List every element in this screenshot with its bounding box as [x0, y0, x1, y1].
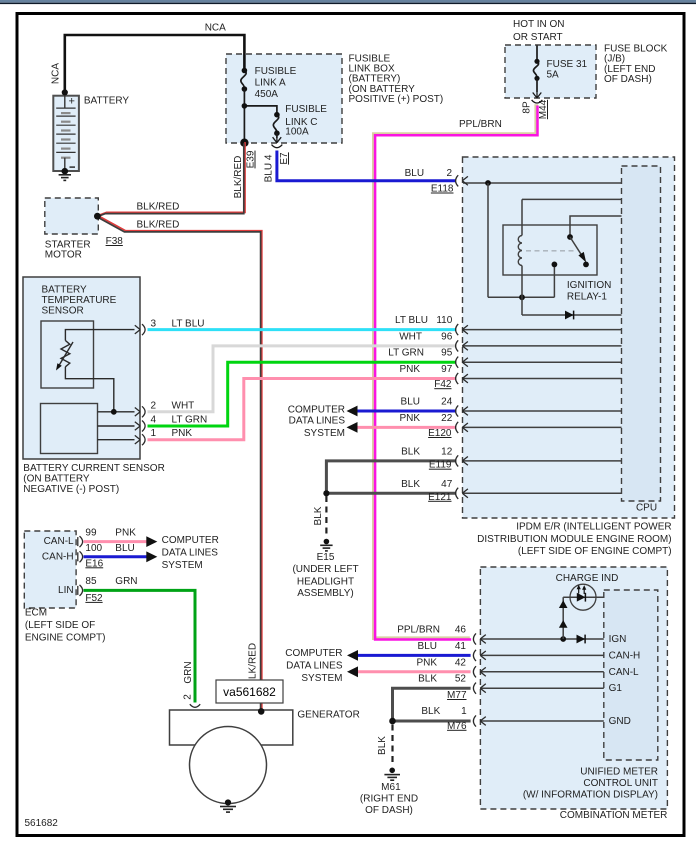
svg-text:5A: 5A [547, 70, 560, 81]
label UNIFIED METER caption [523, 767, 658, 801]
svg-text:E39: E39 [246, 150, 257, 168]
fusible link A [241, 68, 247, 92]
IPDM internal vertical from E118 junction [487, 183, 489, 297]
svg-text:va561682: va561682 [223, 685, 276, 699]
wire BLK meter GND to M61 [389, 718, 470, 725]
wire BLK/RED E39 to starter motor [97, 142, 245, 217]
label BLK 1 [421, 706, 467, 717]
label FUSE BLOCK caption [604, 44, 668, 86]
meter connector CAN-L [473, 666, 485, 677]
svg-text:BATTERY: BATTERY [84, 96, 130, 107]
label E39 [246, 150, 257, 168]
label PPL/BRN 46 [397, 625, 466, 636]
svg-text:BLU: BLU [115, 543, 134, 554]
meter GND row [481, 720, 604, 722]
ECM pin LIN connector [78, 585, 83, 596]
IPDM pin row 22 [463, 426, 622, 428]
svg-text:ASSEMBLY): ASSEMBLY) [297, 588, 354, 599]
svg-text:GRN: GRN [115, 576, 137, 587]
current sensor inner rect [41, 404, 98, 454]
label BLK 12 [401, 446, 453, 457]
label FUSIBLE LINK C 100A [285, 104, 327, 138]
svg-text:ENGINE COMPT): ENGINE COMPT) [25, 633, 106, 644]
svg-text:FUSE 31: FUSE 31 [547, 59, 588, 70]
IPDM internal horizontal to relay contact [488, 294, 554, 300]
svg-text:CHARGE IND: CHARGE IND [556, 573, 619, 584]
connector pin 24 [456, 405, 468, 416]
label PNK 22 [399, 413, 452, 424]
ECM pin CAN-L connector [78, 536, 83, 547]
svg-text:CAN-L: CAN-L [609, 667, 639, 678]
wire BLU IPDM 24 to data lines arrow [347, 406, 457, 417]
sensor pin 1 connector [135, 434, 145, 445]
meter connector IGN [473, 633, 485, 644]
label F52 [85, 593, 103, 604]
svg-text:IPDM E/R (INTELLIGENT POWER: IPDM E/R (INTELLIGENT POWER [516, 522, 671, 533]
svg-text:DATA LINES: DATA LINES [286, 660, 343, 671]
svg-text:85: 85 [85, 576, 97, 587]
svg-text:IGN: IGN [609, 634, 627, 645]
svg-text:12: 12 [441, 446, 453, 457]
label PNK 42 [416, 657, 466, 668]
svg-text:BLK: BLK [401, 446, 420, 457]
svg-text:(UNDER LEFT: (UNDER LEFT [292, 564, 358, 575]
label BATTERY [84, 96, 130, 107]
relay coil top feed to CPU [522, 198, 622, 200]
svg-text:LK/RED: LK/RED [248, 643, 259, 679]
svg-text:41: 41 [455, 641, 467, 652]
svg-text:561682: 561682 [25, 818, 59, 829]
svg-text:BLK: BLK [401, 479, 420, 490]
svg-text:2: 2 [446, 168, 452, 179]
svg-text:GRN: GRN [183, 661, 194, 683]
LED riser with arrows [559, 597, 568, 639]
label E119 [429, 460, 452, 471]
label COMBINATION METER [560, 810, 668, 821]
label F38 [106, 236, 124, 247]
svg-text:MOTOR: MOTOR [45, 250, 82, 261]
battery ground [59, 168, 71, 181]
label BLK vertical E15 [313, 506, 324, 525]
IPDM pin row 95 [463, 361, 622, 363]
label 561682 [25, 818, 59, 829]
label PNK 97 [399, 364, 452, 375]
svg-text:WHT: WHT [172, 400, 195, 411]
connector pin 95 [456, 357, 468, 368]
diode on relay line [565, 311, 574, 320]
label NCA vertical [51, 63, 62, 84]
fusible link box internal wires [242, 89, 277, 143]
relay switch arm [570, 237, 589, 267]
fuse 31 [533, 46, 539, 93]
label CAN-H meter [609, 650, 641, 661]
meter connector GND M76 [473, 715, 485, 726]
connector pin 96 [456, 340, 468, 351]
svg-text:99: 99 [85, 527, 97, 538]
wire WHT pin2 to IPDM 96 [148, 346, 457, 412]
svg-text:BLK: BLK [313, 506, 324, 525]
label IGNITION RELAY-1 [567, 280, 611, 302]
label COMPUTER DATA LINES SYSTEM ECM [162, 535, 219, 571]
label IPDM caption [477, 522, 671, 558]
svg-text:1: 1 [461, 706, 467, 717]
label FUSIBLE LINK BOX caption [349, 53, 444, 105]
svg-text:SYSTEM: SYSTEM [301, 673, 342, 684]
svg-text:E118: E118 [431, 184, 454, 195]
svg-text:(LEFT SIDE OF ENGINE COMPT): (LEFT SIDE OF ENGINE COMPT) [518, 546, 672, 557]
wire BLU CAN-H to data lines arrow [84, 551, 158, 562]
label BATTERY TEMPERATURE SENSOR [42, 285, 117, 317]
label CAN-L [44, 536, 74, 547]
starter motor junction dot [94, 213, 101, 220]
svg-text:DATA LINES: DATA LINES [289, 415, 346, 426]
svg-text:NCA: NCA [205, 23, 226, 34]
va561682 watermark box [216, 680, 283, 703]
svg-text:G1: G1 [609, 683, 623, 694]
svg-text:F52: F52 [85, 593, 103, 604]
svg-text:PPL/BRN: PPL/BRN [459, 119, 502, 130]
svg-text:2: 2 [183, 694, 194, 700]
svg-text:FUSIBLE: FUSIBLE [285, 104, 327, 115]
label M44 [538, 99, 549, 119]
svg-text:BLK/RED: BLK/RED [233, 156, 244, 199]
label HOT IN ON OR START [513, 19, 564, 43]
wire PNK IPDM 22 to data lines arrow [347, 422, 457, 433]
label COMPUTER DATA LINES SYSTEM bottom [285, 648, 343, 684]
svg-text:OF DASH): OF DASH) [604, 74, 652, 85]
svg-text:UNIFIED METER: UNIFIED METER [580, 767, 658, 778]
label F42 [434, 379, 452, 390]
fusible link box (battery) [226, 54, 342, 143]
svg-text:ECM: ECM [25, 608, 47, 619]
svg-text:COMPUTER: COMPUTER [285, 648, 342, 659]
sensor pin 2 connector [135, 406, 145, 417]
svg-text:SENSOR: SENSOR [42, 306, 84, 317]
label BLU 24 [401, 397, 453, 408]
svg-text:E15: E15 [317, 552, 335, 563]
svg-text:BLK/RED: BLK/RED [137, 220, 180, 231]
connector E7 down arrow [272, 137, 283, 148]
label pin 2 WHT [151, 400, 195, 411]
svg-text:BLK: BLK [418, 674, 437, 685]
svg-text:F38: F38 [106, 236, 124, 247]
IPDM internal line E118 to CPU [463, 180, 622, 186]
svg-text:FUSIBLE: FUSIBLE [255, 66, 297, 77]
label GRN vertical [183, 661, 194, 683]
wire PNK CAN-L to data lines arrow [84, 536, 158, 547]
meter CAN-L row [481, 671, 604, 673]
IPDM pin row 96 [463, 345, 622, 347]
label CPU [636, 503, 657, 514]
label pin 3 LT BLU [151, 319, 205, 330]
svg-text:LT GRN: LT GRN [172, 415, 208, 426]
generator rect [170, 710, 293, 745]
svg-text:PNK: PNK [115, 527, 136, 538]
thermistor [56, 341, 73, 371]
wire BLK IPDM 12 to E15 [326, 461, 456, 493]
svg-text:NEGATIVE (-) POST): NEGATIVE (-) POST) [23, 484, 119, 495]
unified meter control unit box [604, 590, 658, 760]
svg-text:110: 110 [436, 315, 452, 326]
svg-text:CAN-L: CAN-L [44, 536, 74, 547]
relay coil to CPU with diode [522, 314, 622, 316]
svg-text:LT GRN: LT GRN [388, 348, 424, 359]
label PPL/BRN top [459, 119, 502, 130]
svg-text:BLU 4: BLU 4 [264, 154, 275, 182]
relay coil [518, 236, 522, 266]
svg-text:CAN-H: CAN-H [609, 650, 641, 661]
svg-text:E7: E7 [279, 152, 290, 165]
svg-text:M44: M44 [538, 99, 549, 119]
svg-text:SYSTEM: SYSTEM [304, 428, 345, 439]
svg-text:1: 1 [151, 428, 157, 439]
battery box [53, 96, 79, 171]
svg-text:4: 4 [151, 415, 157, 426]
label pin 1 PNK [151, 428, 193, 439]
label pin 4 LT GRN [151, 415, 208, 426]
label 8P [522, 101, 533, 114]
label FUSE 31 5A [547, 59, 588, 81]
dashed BLK drop to M61 ground [391, 725, 393, 763]
svg-text:97: 97 [441, 364, 453, 375]
label BLK/RED vertical [233, 156, 244, 199]
dashed BLK drop to E15 ground [325, 496, 327, 536]
svg-text:8P: 8P [522, 101, 533, 114]
svg-text:PNK: PNK [416, 657, 437, 668]
charge indicator LED [563, 584, 604, 610]
svg-text:LIN: LIN [58, 585, 74, 596]
IPDM pin row 24 [463, 410, 622, 412]
svg-text:TEMPERATURE: TEMPERATURE [42, 295, 117, 306]
label CHARGE IND [556, 573, 619, 584]
wire GRN LIN to generator pin 2 [84, 590, 196, 702]
svg-text:95: 95 [441, 348, 453, 359]
svg-text:PNK: PNK [172, 428, 193, 439]
relay dashed actuator line [526, 250, 576, 252]
sensor pin 3 connector [135, 324, 145, 335]
svg-text:NCA: NCA [51, 63, 62, 84]
fuse block bottom connector M44 [532, 92, 543, 103]
wire NCA battery to fusible link box [65, 35, 245, 92]
ECM box [24, 531, 76, 608]
label E121 [428, 492, 452, 503]
svg-text:450A: 450A [255, 89, 279, 100]
svg-text:BLU: BLU [401, 397, 420, 408]
label BATTERY CURRENT SENSOR caption [23, 463, 165, 495]
label IGN [609, 634, 627, 645]
svg-text:DATA LINES: DATA LINES [162, 548, 219, 559]
battery internals [56, 96, 75, 172]
svg-text:BATTERY CURRENT SENSOR: BATTERY CURRENT SENSOR [23, 463, 165, 474]
svg-text:(ON BATTERY: (ON BATTERY [23, 474, 90, 485]
IPDM pin row 110 [463, 329, 622, 331]
svg-text:M77: M77 [447, 690, 467, 701]
svg-text:2: 2 [151, 400, 157, 411]
svg-text:PPL/BRN: PPL/BRN [397, 625, 440, 636]
connector pin 47 E121 [456, 488, 468, 499]
connector pin 110 [456, 324, 468, 335]
battery plus sign [69, 96, 75, 108]
label G1 [609, 683, 623, 694]
svg-text:E121: E121 [428, 492, 452, 503]
svg-text:24: 24 [441, 397, 453, 408]
label BLU 4 vertical [264, 154, 275, 182]
svg-text:BLU: BLU [418, 641, 437, 652]
label 99 PNK [85, 527, 136, 538]
relay switch common feed [567, 216, 621, 240]
IPDM pin row 12 [463, 460, 622, 462]
meter connector CAN-H [473, 650, 485, 661]
wire BLK IPDM 47 to E15 [323, 490, 456, 496]
label 2 vertical [183, 694, 194, 700]
svg-text:PNK: PNK [399, 364, 420, 375]
label ECM caption [25, 608, 106, 644]
label 85 GRN [85, 576, 137, 587]
svg-text:F42: F42 [434, 379, 452, 390]
label STARTER MOTOR [45, 240, 91, 261]
svg-text:DISTRIBUTION MODULE ENGINE ROO: DISTRIBUTION MODULE ENGINE ROOM) [477, 534, 671, 545]
svg-text:+: + [69, 96, 75, 108]
meter IGN row [481, 636, 604, 642]
label E120 [428, 428, 452, 439]
label M61 caption [360, 782, 418, 816]
svg-text:(W/ INFORMATION DISPLAY): (W/ INFORMATION DISPLAY) [523, 790, 658, 801]
E15 ground [320, 539, 332, 551]
battery temperature sensor box [23, 277, 140, 459]
combination meter box [480, 567, 667, 809]
svg-text:CAN-H: CAN-H [42, 552, 74, 563]
wire LT BLU pin3 to IPDM 110 [148, 328, 457, 331]
svg-text:M76: M76 [447, 721, 467, 732]
label BLK 52 [418, 674, 466, 685]
svg-text:COMBINATION METER: COMBINATION METER [560, 810, 668, 821]
svg-text:96: 96 [441, 331, 453, 342]
sensor internal wires [65, 330, 134, 440]
svg-text:LINK A: LINK A [255, 78, 286, 89]
meter G1 row [481, 687, 604, 689]
svg-text:46: 46 [455, 625, 467, 636]
label BLK/RED lower [137, 220, 180, 231]
label BLK vertical M61 [377, 736, 388, 755]
svg-text:HOT IN ON: HOT IN ON [513, 19, 564, 30]
svg-text:COMPUTER: COMPUTER [288, 405, 345, 416]
svg-text:CONTROL UNIT: CONTROL UNIT [583, 778, 658, 789]
svg-text:52: 52 [455, 674, 467, 685]
connector pin 12 E119 [456, 455, 468, 466]
wire BLK/RED starter motor to generator [97, 216, 262, 712]
label LT GRN 95 [388, 348, 452, 359]
label E7 [279, 152, 290, 165]
svg-text:OF DASH): OF DASH) [365, 805, 413, 816]
svg-text:(RIGHT END: (RIGHT END [360, 794, 418, 805]
svg-text:BLU: BLU [405, 168, 424, 179]
generator pin 2 connector [190, 704, 200, 707]
label FUSIBLE LINK A 450A [255, 66, 297, 100]
relay coil wire [521, 199, 523, 315]
svg-text:BLK: BLK [377, 736, 388, 755]
wire LT GRN pin4 to IPDM 95 [148, 362, 457, 426]
label NCA top [205, 23, 226, 34]
svg-text:M61: M61 [381, 782, 401, 793]
svg-text:GENERATOR: GENERATOR [297, 710, 359, 721]
junction dot fusible box bottom [240, 139, 248, 147]
label BLK/RED upper [137, 202, 180, 213]
meter connector G1 M77 [473, 683, 485, 694]
connector pin 22 E120 [456, 422, 468, 433]
wire PNK meter CAN-L to data lines arrow [347, 666, 471, 677]
IPDM pin row 47 [463, 492, 622, 494]
IPDM pin row 97 [463, 378, 622, 380]
diode on IGN row [577, 635, 586, 644]
svg-text:GND: GND [609, 716, 631, 727]
svg-text:BLK: BLK [421, 706, 440, 717]
svg-text:POSITIVE (+) POST): POSITIVE (+) POST) [349, 94, 444, 105]
svg-text:IGNITION: IGNITION [567, 280, 611, 291]
starter motor box [45, 198, 99, 234]
svg-text:OR START: OR START [513, 32, 563, 43]
label E16 [85, 558, 103, 569]
svg-text:BATTERY: BATTERY [42, 285, 88, 296]
svg-text:E119: E119 [429, 460, 452, 471]
fuse block J/B [505, 45, 596, 98]
wire BLU meter CAN-H to data lines arrow [347, 650, 471, 661]
label BLK 47 [401, 479, 453, 490]
CPU box [622, 166, 661, 501]
label BLU 2 E118 [405, 168, 454, 195]
svg-text:47: 47 [441, 479, 453, 490]
relay contact riser [552, 262, 558, 298]
label CAN-H [42, 552, 74, 563]
svg-text:PNK: PNK [399, 413, 420, 424]
connector E118 [456, 175, 468, 186]
wire PPL/BRN fuse to combination meter [374, 104, 538, 639]
label M77 [447, 690, 467, 701]
label M76 [447, 721, 467, 732]
battery top junction dot [62, 89, 68, 95]
fusible link C [273, 112, 279, 138]
label 100 BLU [85, 543, 134, 554]
svg-text:BLK/RED: BLK/RED [137, 202, 180, 213]
svg-text:22: 22 [441, 413, 453, 424]
label BLU 41 [418, 641, 467, 652]
top window bar [0, 0, 696, 4]
svg-text:(LEFT SIDE OF: (LEFT SIDE OF [25, 620, 95, 631]
label LK/RED vertical [248, 643, 259, 679]
label LT BLU 110 [395, 315, 453, 326]
svg-text:COMPUTER: COMPUTER [162, 535, 219, 546]
svg-text:42: 42 [455, 657, 467, 668]
svg-text:3: 3 [151, 319, 157, 330]
svg-text:RELAY-1: RELAY-1 [567, 291, 607, 302]
wire BLU E7 to E118 [277, 151, 456, 181]
ECM pin CAN-H connector [78, 551, 83, 562]
svg-text:LT BLU: LT BLU [395, 315, 428, 326]
generator ground [220, 799, 236, 812]
relay rect [503, 225, 597, 275]
thermistor inner rect [41, 321, 94, 388]
label COMPUTER DATA LINES SYSTEM middle [288, 405, 346, 440]
wire PNK pin1 to IPDM 97 [148, 379, 457, 440]
M61 ground [384, 768, 400, 781]
label CAN-L meter [609, 667, 639, 678]
label GND [609, 716, 631, 727]
label E15 caption [292, 552, 358, 599]
svg-text:E16: E16 [85, 558, 103, 569]
IPDM E/R box [463, 157, 675, 518]
svg-text:LT BLU: LT BLU [172, 319, 205, 330]
svg-text:100: 100 [85, 543, 102, 554]
generator B+ junction dot [258, 708, 265, 715]
